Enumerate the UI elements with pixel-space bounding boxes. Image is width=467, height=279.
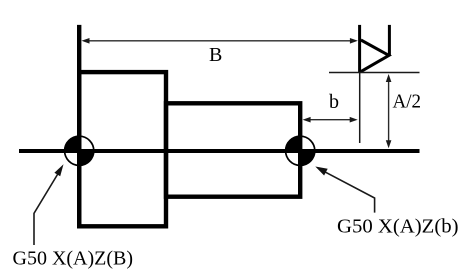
origin symbol right bottom-right filled quadrant [300,151,315,166]
centerline [19,149,420,153]
origin symbol left top-left filled quadrant [65,136,80,151]
leader line right [321,170,375,213]
tool holder left edge [358,25,361,72]
tool tip position line [359,73,361,144]
leader right arrowhead [315,167,327,176]
workpiece small diameter outline [166,103,300,196]
dimension A/2 top arrowhead [386,74,392,82]
dimension line A/2 [388,77,390,146]
dimension A/2 bottom arrowhead [386,140,392,148]
origin symbol right circle [286,136,315,165]
svg-text:B: B [209,44,222,66]
svg-text:A/2: A/2 [393,91,422,113]
leader line left [34,172,59,245]
dimension B left arrowhead [82,38,90,44]
tool holder right edge [388,25,391,56]
workpiece large diameter outline [79,72,166,226]
workpiece left face datum line [77,25,81,228]
svg-text:b: b [329,91,339,113]
leader left arrowhead [54,164,63,176]
tool tip gauge line [329,72,420,74]
origin symbol left circle [65,136,94,165]
svg-text:G50 X(A)Z(b): G50 X(A)Z(b) [337,215,459,237]
origin symbol right top-left filled quadrant [286,136,301,151]
dimension line b [305,119,355,121]
tool insert triangle [361,40,389,72]
dimension line B [84,40,355,42]
dimension b left arrowhead [303,117,311,123]
dimension b right arrowhead [350,117,358,123]
origin symbol left bottom-right filled quadrant [79,151,94,166]
svg-text:G50 X(A)Z(B): G50 X(A)Z(B) [13,248,134,270]
dimension B right arrowhead [350,38,358,44]
